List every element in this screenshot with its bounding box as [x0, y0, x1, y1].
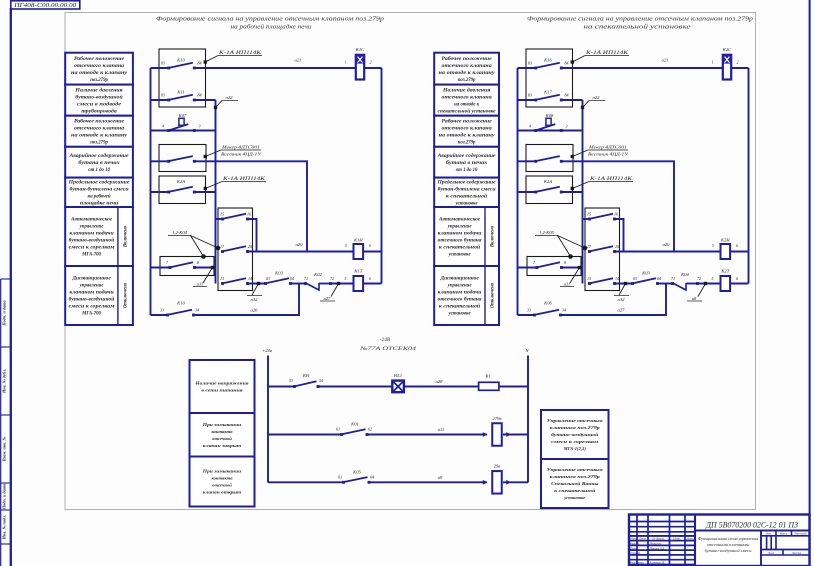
svg-text:К1Т: К1Т [353, 269, 362, 274]
contact K01 [268, 422, 372, 436]
wire between contacts [658, 283, 673, 285]
svg-text:+24в: +24в [262, 348, 272, 353]
svg-text:72: 72 [330, 276, 334, 281]
svg-text:Инв. № подл.: Инв. № подл. [2, 515, 7, 541]
node label 1,2-К04 [168, 230, 220, 259]
svg-text:64: 64 [370, 474, 374, 479]
svg-text:ДП 5В070200 02С-12 01 ПЗ: ДП 5В070200 02С-12 01 ПЗ [705, 521, 798, 530]
node a22 [581, 95, 605, 109]
legend box valve control 1 [541, 410, 609, 459]
svg-text:Пров.: Пров. [629, 546, 637, 550]
title right block [527, 16, 753, 31]
svg-text:4: 4 [162, 123, 164, 128]
wire R1 to bus [499, 386, 528, 388]
svg-text:клапаном поз.279р: клапаном поз.279р [550, 474, 601, 479]
svg-text:HL1: HL1 [393, 373, 402, 378]
svg-text:отсечного клапана: отсечного клапана [74, 64, 125, 69]
contact 7-8 [518, 260, 567, 269]
svg-text:К07: К07 [178, 113, 187, 118]
svg-text:1: 1 [712, 60, 714, 65]
wire contact2 to middle bus [561, 99, 582, 101]
svg-text:бутано-воздушной: бутано-воздушной [69, 238, 115, 244]
svg-text:5: 5 [345, 244, 347, 248]
svg-text:К1С: К1С [355, 47, 365, 52]
svg-text:33: 33 [160, 308, 164, 313]
svg-text:6: 6 [736, 244, 738, 248]
node K-1A anchor 2 [571, 177, 633, 190]
svg-text:к спекательной: к спекательной [446, 193, 488, 199]
svg-text:управление: управление [447, 225, 473, 230]
contact box pressure switch [159, 145, 206, 172]
wire row4 long to down corner [194, 161, 307, 251]
svg-text:8: 8 [564, 260, 566, 265]
svg-text:клапан закрыт: клапан закрыт [203, 443, 242, 448]
svg-text:34: 34 [195, 308, 199, 313]
svg-text:управление: управление [79, 225, 105, 230]
svg-text:62: 62 [368, 427, 372, 432]
wire 16 corner down [248, 219, 257, 252]
svg-text:Рабочее положение: Рабочее положение [74, 119, 125, 124]
contact 13-14 [220, 276, 252, 285]
svg-text:Формирование сигнала на управл: Формирование сигнала на управление отсеч… [156, 16, 384, 23]
wire right bus [748, 68, 750, 284]
svg-text:84: 84 [198, 92, 202, 97]
svg-text:33: 33 [527, 308, 531, 313]
contact К11 [151, 90, 202, 102]
wire a20 to coil [615, 242, 721, 252]
svg-text:поз.279р: поз.279р [90, 140, 108, 145]
legend box left valve position [65, 53, 133, 85]
solenoid 29v [483, 464, 528, 494]
svg-text:Управление отсечным: Управление отсечным [547, 467, 603, 472]
svg-text:установке: установке [448, 312, 472, 317]
contact 17-20 [220, 244, 252, 253]
svg-text:3: 3 [199, 123, 201, 128]
svg-text:смеси к горелкам: смеси к горелкам [69, 246, 116, 251]
contact K05 [268, 470, 374, 484]
svg-text:отсечного клапана: отсечного клапана [442, 95, 493, 100]
svg-text:Дата: Дата [685, 536, 694, 540]
svg-text:отсечной: отсечной [212, 436, 232, 441]
svg-text:К10: К10 [176, 58, 185, 63]
svg-text:Вестник 4ЦД-1У: Вестник 4ЦД-1У [588, 152, 629, 157]
svg-text:а21: а21 [662, 58, 669, 63]
svg-text:К11: К11 [176, 90, 184, 95]
svg-text:К-1А ИП114К: К-1А ИП114К [218, 51, 262, 56]
svg-text:Управление отсечным: Управление отсечным [547, 418, 603, 423]
wire coil3 to right bus [730, 283, 748, 285]
svg-text:отсечного бутана: отсечного бутана [438, 239, 482, 244]
svg-text:84: 84 [565, 92, 569, 97]
svg-text:а11: а11 [197, 282, 204, 287]
wire row4 long to down corner [561, 161, 674, 251]
svg-text:а27: а27 [324, 296, 332, 301]
svg-text:а27: а27 [618, 308, 626, 313]
svg-text:бутан-бутилена смеси: бутан-бутилена смеси [70, 187, 129, 192]
svg-text:К03: К03 [641, 271, 650, 276]
svg-text:а11: а11 [564, 282, 571, 287]
svg-text:смеси в подводе: смеси в подводе [77, 102, 122, 107]
legend box contact open [190, 457, 255, 507]
svg-text:63: 63 [338, 474, 342, 479]
svg-text:К03: К03 [274, 271, 283, 276]
title bottom -24V [359, 337, 417, 352]
contact 15-16 [583, 212, 619, 221]
svg-text:смеси к горелкам: смеси к горелкам [69, 305, 116, 310]
wire bottom right bus [527, 356, 529, 483]
svg-text:Минаев А.Б.: Минаев А.Б. [649, 546, 666, 550]
contact box К2А [526, 176, 573, 204]
svg-text:МГА-1(2,3): МГА-1(2,3) [563, 446, 587, 451]
svg-text:Утверд.: Утверд. [630, 551, 641, 555]
svg-text:14: 14 [248, 276, 252, 281]
svg-text:Подп. и дата: Подп. и дата [2, 483, 7, 510]
wire middle bus [215, 100, 217, 284]
svg-text:4: 4 [529, 123, 531, 128]
svg-text:279в: 279в [493, 416, 502, 421]
svg-text:Предельное содержание: Предельное содержание [437, 180, 497, 185]
svg-text:на рабочей площадке печи: на рабочей площадке печи [231, 23, 312, 30]
svg-text:15: 15 [587, 212, 591, 217]
svg-text:20: 20 [615, 244, 619, 249]
wire middle bus [582, 100, 584, 284]
legend box left emergency content [65, 147, 133, 178]
svg-text:отсечного клапана: отсечного клапана [74, 126, 125, 131]
wire а27 bottom row [561, 284, 667, 316]
contact К02 NC [304, 272, 334, 290]
svg-text:2: 2 [737, 60, 739, 65]
contact 13-14 [587, 276, 619, 285]
legend box right valve position 2 [434, 116, 499, 147]
svg-text:64: 64 [290, 276, 294, 281]
contact К04 NC [671, 272, 701, 290]
svg-text:на рабочей: на рабочей [88, 193, 111, 199]
contact box K04 [527, 257, 581, 276]
legend box left pressure present [65, 85, 133, 116]
svg-text:Автоматическое: Автоматическое [70, 218, 113, 223]
svg-text:83: 83 [528, 92, 532, 97]
svg-text:29в: 29в [494, 464, 501, 469]
wire row5 to middle bus [194, 191, 215, 193]
contact К17 [518, 90, 569, 102]
svg-text:отсечными клапанами: отсечными клапанами [707, 542, 750, 547]
legend box right pressure present [434, 85, 499, 116]
pushbutton К08 [518, 113, 583, 132]
svg-text:5: 5 [345, 277, 347, 281]
svg-text:установке: установке [448, 253, 472, 258]
svg-text:К05: К05 [352, 470, 361, 475]
svg-text:Мекер 4ДТС001: Мекер 4ДТС001 [221, 145, 260, 150]
svg-text:к спекательной: к спекательной [554, 488, 596, 493]
wire а26 bottom row [194, 284, 300, 316]
svg-text:К06: К06 [543, 301, 552, 306]
svg-text:Рабочее положение: Рабочее положение [442, 119, 493, 124]
svg-text:-24В: -24В [380, 337, 391, 343]
title left block [156, 16, 384, 31]
svg-text:Аварийное содержание: Аварийное содержание [437, 153, 497, 159]
wire coil2 to right bus [363, 251, 381, 253]
svg-text:К02: К02 [313, 272, 322, 277]
sheet left margin inner line [0, 279, 2, 566]
contact 15-16 [216, 212, 252, 221]
svg-text:бутана в печах: бутана в печах [78, 161, 120, 166]
wire 16 corner down [615, 219, 624, 252]
wire contact2 to middle bus [194, 99, 215, 101]
svg-text:Автоматическое: Автоматическое [438, 218, 481, 223]
svg-text:Наличие давления: Наличие давления [442, 88, 491, 93]
svg-text:управление: управление [79, 284, 105, 289]
svg-text:клапаном подачи: клапаном подачи [438, 291, 482, 296]
contact box triple [585, 208, 620, 291]
svg-text:трубопровода: трубопровода [81, 109, 117, 114]
svg-text:84: 84 [198, 60, 202, 65]
svg-text:отсечного бутана: отсечного бутана [438, 298, 482, 303]
svg-text:бутано-воздушной: бутано-воздушной [69, 297, 115, 303]
svg-text:72: 72 [697, 276, 701, 281]
contact К10 [151, 301, 200, 317]
contact box К2А [159, 176, 206, 204]
solenoid 279v [483, 416, 528, 446]
svg-text:К17: К17 [543, 90, 552, 95]
svg-text:бутано-воздушной смеси: бутано-воздушной смеси [705, 548, 753, 553]
wire a11 [367, 427, 487, 435]
svg-text:8: 8 [197, 260, 199, 265]
svg-text:К08: К08 [545, 113, 554, 118]
svg-text:61: 61 [336, 427, 340, 432]
svg-text:К-1А ИП114К: К-1А ИП114К [589, 177, 633, 182]
svg-text:КН: КН [302, 373, 310, 378]
legend box left limit content [65, 178, 133, 207]
svg-text:спекательной установке: спекательной установке [438, 108, 497, 114]
svg-text:от 1 до 10: от 1 до 10 [88, 168, 110, 173]
legend box right emergency content [434, 147, 499, 178]
svg-text:53: 53 [289, 378, 293, 383]
svg-text:34: 34 [562, 308, 566, 313]
svg-text:бутан-бутилена смеси: бутан-бутилена смеси [438, 187, 496, 192]
pushbutton К07 [151, 113, 216, 132]
svg-text:71: 71 [304, 276, 308, 281]
svg-text:установке: установке [563, 495, 585, 500]
svg-text:83: 83 [161, 60, 165, 65]
wire a9 [369, 475, 487, 482]
svg-text:а22: а22 [226, 95, 234, 100]
legend box left auto control [65, 207, 133, 266]
svg-text:клапаном поз.279р: клапаном поз.279р [550, 425, 601, 430]
relay coil К1Н [345, 238, 371, 260]
legend box right limit content [434, 178, 499, 207]
lamp HL1 [318, 373, 404, 392]
svg-text:К1Н: К1Н [353, 238, 363, 243]
svg-text:от 1 до 10: от 1 до 10 [456, 168, 478, 173]
svg-text:Мекер 4ДТС001: Мекер 4ДТС001 [588, 145, 627, 150]
svg-text:МГА-700: МГА-700 [81, 312, 101, 317]
svg-text:К-1А ИП114К: К-1А ИП114К [585, 51, 629, 56]
title block outer [629, 515, 810, 566]
svg-text:а20: а20 [296, 242, 304, 247]
node Meker label [571, 145, 629, 159]
node K-1A anchor [204, 51, 262, 64]
drawing area gray frame [65, 13, 756, 510]
svg-text:13: 13 [220, 276, 224, 281]
svg-text:на отводе к клапану: на отводе к клапану [439, 71, 496, 76]
node Meker label [204, 145, 262, 159]
svg-text:6: 6 [736, 277, 738, 281]
svg-text:Разраб.: Разраб. [629, 542, 640, 546]
svg-text:а22: а22 [593, 95, 601, 100]
node K-1A anchor 2 [204, 177, 266, 190]
relay coil К1Т [353, 269, 371, 292]
svg-text:отсечного клапана: отсечного клапана [442, 126, 493, 131]
svg-text:на отводе к клапану: на отводе к клапану [71, 133, 128, 138]
svg-text:МГА-700: МГА-700 [81, 253, 101, 258]
contact 7-8 [151, 260, 200, 269]
svg-text:При замыкании: При замыкании [202, 469, 242, 474]
legend box right valve position [434, 53, 499, 85]
resistor R1 [479, 374, 499, 391]
svg-text:смеси к горелкам: смеси к горелкам [551, 439, 598, 444]
contact box K04 [160, 257, 214, 276]
wire row5 to middle bus [561, 191, 582, 193]
title block name [698, 536, 758, 553]
relay coil К1С [345, 47, 372, 80]
relay coil К2С [712, 47, 739, 80]
contact box К16/К17 [526, 49, 573, 107]
legend box right remote control [434, 266, 499, 325]
wire coil3 to right bus [363, 283, 381, 285]
svg-text:2: 2 [370, 60, 372, 65]
contact К06 [518, 301, 567, 317]
svg-text:поз.279р: поз.279р [90, 78, 108, 83]
svg-text:Лист: Лист [638, 536, 647, 540]
svg-text:13: 13 [587, 276, 591, 281]
svg-text:управление: управление [447, 284, 473, 289]
relay coil К2Н [712, 238, 738, 260]
svg-text:Подп. и дата: Подп. и дата [2, 299, 7, 326]
svg-text:Формирование сигнала на управл: Формирование сигнала на управление отсеч… [527, 16, 753, 23]
contact К16 [518, 58, 569, 70]
legend box left remote control [65, 266, 133, 325]
node a22 [214, 95, 238, 109]
relay coil К2Т [720, 269, 738, 292]
svg-text:поз.279р: поз.279р [458, 78, 476, 83]
svg-text:При замыкании: При замыкании [202, 422, 242, 427]
svg-text:Рецензент: Рецензент [629, 561, 644, 565]
svg-text:а20: а20 [663, 242, 671, 247]
svg-text:К2С: К2С [722, 47, 732, 52]
svg-text:отсечной: отсечной [212, 483, 232, 488]
svg-text:Включено: Включено [490, 225, 495, 248]
contact pressure switch [518, 156, 563, 163]
svg-text:63: 63 [633, 276, 637, 281]
contact К10 [151, 58, 202, 70]
svg-text:16: 16 [614, 212, 618, 217]
svg-text:6: 6 [369, 244, 371, 248]
wire a28 [404, 379, 479, 387]
svg-text:54: 54 [319, 378, 323, 383]
svg-text:К2А: К2А [176, 179, 185, 184]
svg-text:к спекательной: к спекательной [439, 245, 481, 251]
svg-text:20: 20 [248, 244, 252, 249]
svg-text:63: 63 [266, 276, 270, 281]
contact К03 [264, 271, 294, 285]
svg-text:а21: а21 [295, 58, 302, 63]
svg-text:№77А ОТСЕК04: №77А ОТСЕК04 [359, 346, 417, 352]
svg-text:Нуралиев: Нуралиев [649, 542, 663, 546]
contact 17-20 [587, 244, 619, 253]
svg-text:№ докум.: № докум. [652, 536, 665, 540]
wire left bus [517, 68, 519, 315]
svg-text:К16: К16 [543, 58, 552, 63]
svg-text:Лит.: Лит. [764, 533, 771, 536]
svg-text:R1: R1 [484, 374, 490, 379]
svg-text:поз.279р: поз.279р [458, 140, 476, 145]
contact К03 [631, 271, 661, 285]
wire to middle bus + node a11 [193, 266, 216, 287]
node a32 [247, 282, 266, 302]
contact box К10/К11 [159, 49, 206, 107]
svg-text:Инв. № дубл.: Инв. № дубл. [2, 369, 7, 394]
contact box triple [218, 208, 253, 291]
svg-text:Рабочее положение: Рабочее положение [74, 57, 125, 62]
svg-text:К10: К10 [176, 301, 185, 306]
title block small texts [629, 533, 807, 565]
wire coil to right bus [364, 67, 381, 69]
node K-1A anchor [571, 51, 629, 64]
svg-text:64: 64 [657, 276, 661, 281]
svg-text:на отводе к: на отводе к [454, 102, 480, 107]
wire right bus [381, 68, 383, 284]
svg-text:а8: а8 [692, 296, 697, 301]
node а8 [687, 277, 721, 301]
svg-text:Лист: Лист [767, 552, 775, 555]
node label 1,2-К05 [535, 230, 587, 259]
svg-text:5: 5 [712, 244, 714, 248]
legend box power present [190, 360, 255, 413]
svg-text:отсечного клапана: отсечного клапана [442, 64, 493, 69]
svg-text:контакта: контакта [211, 476, 233, 481]
svg-text:Вестник 4ЦД-1У: Вестник 4ЦД-1У [221, 152, 262, 157]
svg-text:клапан открыт: клапан открыт [203, 490, 242, 495]
contact К2А [151, 179, 196, 193]
left margin cell dividers [1, 279, 11, 544]
svg-text:Включено: Включено [124, 225, 129, 248]
svg-text:71: 71 [671, 276, 675, 281]
title stamp box top-left [11, 1, 80, 9]
svg-text:а32: а32 [251, 297, 259, 302]
svg-text:а26: а26 [251, 308, 259, 313]
sheet right border [809, 0, 811, 566]
svg-text:на отводе к клапану: на отводе к клапану [439, 133, 496, 138]
svg-text:а11: а11 [438, 427, 445, 432]
left margin rotated labels [2, 299, 7, 540]
svg-text:Ахметов Ж.: Ахметов Ж. [649, 561, 666, 565]
svg-text:на отводе к клапану: на отводе к клапану [71, 71, 128, 76]
svg-text:Аварийное содержание: Аварийное содержание [68, 153, 129, 159]
svg-text:16: 16 [247, 212, 251, 217]
svg-text:Функциональная схема управлени: Функциональная схема управления [698, 536, 758, 541]
svg-text:установке: установке [455, 201, 479, 206]
svg-text:в сети питания: в сети питания [201, 388, 243, 393]
svg-text:к спекательной: к спекательной [439, 304, 481, 310]
wire left bus [150, 68, 152, 315]
svg-text:бутано-воздушной: бутано-воздушной [75, 94, 123, 100]
svg-text:Масса: Масса [779, 533, 788, 536]
svg-text:Листов: Листов [791, 552, 802, 555]
svg-text:5: 5 [712, 277, 714, 281]
svg-text:3: 3 [566, 123, 568, 128]
svg-text:бутано-воздушной: бутано-воздушной [551, 432, 599, 437]
svg-text:К04: К04 [680, 272, 689, 277]
